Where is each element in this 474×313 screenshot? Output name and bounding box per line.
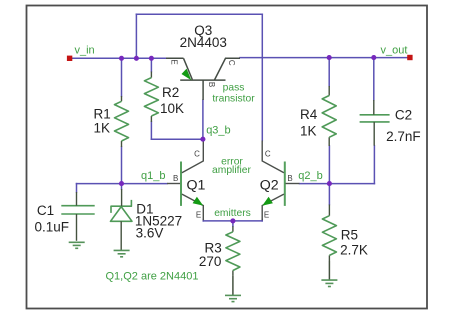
zener diode D1	[111, 200, 133, 221]
svg-text:1K: 1K	[94, 121, 111, 136]
svg-text:q3_b: q3_b	[206, 124, 230, 136]
svg-text:R5: R5	[341, 227, 358, 242]
svg-text:C: C	[265, 149, 271, 158]
wire R1 bottom to q1_b	[121, 147, 123, 184]
wire R2 bottom	[150, 122, 152, 139]
arrow of Q1 emitter	[193, 197, 204, 206]
svg-text:10K: 10K	[160, 101, 184, 116]
svg-text:Q2: Q2	[260, 178, 279, 194]
wire R5 top	[328, 184, 330, 205]
svg-text:amplifier: amplifier	[212, 165, 251, 176]
junction on v_in at top rail	[134, 56, 139, 61]
svg-text:E: E	[264, 210, 269, 219]
svg-text:v_in: v_in	[75, 45, 95, 57]
svg-text:q1_b: q1_b	[141, 170, 165, 182]
junction node q3_b	[200, 137, 205, 142]
svg-text:C: C	[227, 60, 236, 66]
resistor R3	[232, 226, 234, 275]
transistor Q1 (NPN error amp left)	[180, 162, 182, 206]
junction node q2_b	[327, 181, 332, 186]
svg-text:B: B	[207, 82, 216, 87]
svg-text:R2: R2	[162, 85, 179, 100]
junction on v_out at C2	[371, 55, 376, 60]
wire R4 top	[328, 58, 330, 86]
svg-text:C: C	[194, 149, 200, 158]
wire right vertical (top rail down to Q2 collector)	[261, 14, 263, 140]
capacitor C1	[61, 206, 94, 214]
svg-text:R4: R4	[300, 107, 318, 122]
wire R1 top	[121, 58, 123, 96]
wire C2 top	[373, 58, 375, 100]
svg-text:pass: pass	[223, 82, 245, 93]
ground (below R3)	[232, 276, 234, 296]
svg-text:2.7K: 2.7K	[340, 243, 368, 258]
svg-text:3.6V: 3.6V	[136, 225, 164, 240]
resistor R1	[121, 96, 123, 147]
junction node q1_b	[119, 181, 124, 186]
wire R3 top	[232, 221, 234, 226]
transistor Q3 (PNP pass transistor)	[166, 58, 240, 100]
svg-text:E: E	[196, 210, 201, 219]
resistor R2	[150, 72, 152, 123]
svg-text:1K: 1K	[300, 124, 317, 139]
wire q2_b horizontal	[300, 183, 375, 185]
svg-text:emitters: emitters	[214, 208, 251, 219]
svg-text:B: B	[173, 174, 178, 183]
svg-text:0.1uF: 0.1uF	[35, 219, 70, 234]
svg-text:B: B	[287, 174, 292, 183]
wire top-left vertical (v_in to top rail)	[135, 14, 137, 58]
ground (below C1)	[69, 242, 85, 248]
junction on v_in at R1	[119, 56, 124, 61]
resistor R4	[328, 86, 330, 146]
junction node emitters at R3	[230, 218, 235, 223]
wire q3_b vertical (Q3 base)	[202, 100, 204, 139]
svg-text:C2: C2	[395, 108, 412, 123]
svg-text:q2_b: q2_b	[298, 170, 322, 182]
endpoint square v_out	[407, 55, 412, 60]
wire C2 bottom vertical	[373, 146, 375, 184]
ground (below R5)	[328, 261, 330, 280]
wire q3_b horizontal	[151, 138, 203, 140]
wire D1 top	[121, 184, 123, 189]
svg-text:2.7nF: 2.7nF	[386, 129, 421, 144]
arrow of Q2 emitter	[262, 197, 273, 206]
svg-text:v_out: v_out	[381, 45, 408, 57]
wire v_in horizontal	[72, 57, 166, 59]
wire C1 top	[76, 184, 78, 192]
svg-text:Q1: Q1	[187, 178, 206, 194]
wire R2 top	[150, 58, 152, 71]
svg-text:E: E	[170, 59, 179, 64]
wire v_out horizontal	[240, 57, 407, 59]
wire R4 bottom	[328, 146, 330, 184]
svg-text:transistor: transistor	[212, 94, 255, 105]
wire q1_b horizontal	[77, 183, 168, 185]
junction on v_in at R2	[149, 56, 154, 61]
arrow of Q3 emitter	[182, 69, 192, 81]
ground (below D1)	[114, 250, 130, 256]
wire emitters horizontal	[203, 220, 262, 222]
transistor Q2 (NPN error amp right)	[284, 162, 286, 206]
svg-text:2N4403: 2N4403	[180, 35, 227, 50]
wire Q1 collector	[202, 139, 204, 141]
svg-text:C1: C1	[37, 203, 54, 218]
svg-text:270: 270	[199, 254, 222, 269]
wire Q2 emitter down	[261, 220, 263, 221]
svg-text:R1: R1	[94, 107, 111, 122]
svg-text:Q1,Q2 are 2N4401: Q1,Q2 are 2N4401	[106, 271, 199, 283]
junction on v_out at R4	[327, 55, 332, 60]
resistor R5	[328, 205, 330, 262]
wire top rail horizontal	[136, 13, 262, 15]
wire Q1 emitter down	[202, 220, 204, 221]
capacitor C2	[360, 115, 390, 122]
endpoint square v_in	[67, 56, 72, 61]
